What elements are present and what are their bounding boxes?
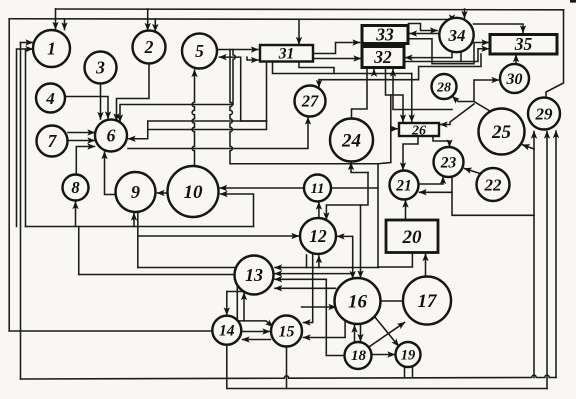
- wire block 10 into block 5 riser: [192, 70, 194, 166]
- wire horizontal bus y=226.5: [26, 226, 254, 228]
- wire block 22 into block 23 diagonal: [465, 169, 481, 174]
- block 6: [95, 120, 127, 152]
- wire block 2 bottom into block 6: [117, 64, 150, 121]
- wire long loop x=230 y=163.75: [230, 50, 378, 268]
- svg-text:25: 25: [491, 122, 512, 143]
- wire block 34 bottom to block 32 right upper: [406, 52, 453, 58]
- wire block 3 into block 6: [100, 84, 102, 120]
- svg-text:30: 30: [506, 71, 523, 88]
- wire block 7 into block 6 upper: [68, 132, 95, 134]
- block 10: [168, 166, 219, 217]
- wire L1 drop into block 1: [55, 9, 57, 29]
- svg-text:23: 23: [440, 154, 457, 171]
- wire bus arrow up into block 32 bottom: [373, 70, 375, 74]
- wire x=326 trunk to block 18 left: [326, 279, 346, 355]
- wire block 24 loop into block 12 top: [326, 173, 368, 220]
- svg-text:32: 32: [373, 47, 392, 67]
- svg-text:9: 9: [131, 182, 140, 202]
- wire block 11 right drop to riser: [331, 187, 378, 189]
- wire arrow up into block 8: [75, 202, 77, 227]
- wire arrow up into block 24 bottom: [351, 163, 368, 173]
- wire block 15 into block 16: [302, 306, 336, 308]
- wire B up into block 29: [546, 132, 548, 389]
- block 17: [403, 277, 451, 325]
- wire block 19 bottom drop to A right: [412, 367, 414, 378]
- wire feed into block 12 left: [138, 235, 299, 237]
- wire left border outer vertical x=9: [8, 19, 10, 331]
- wire block 18 into block 17 diagonal: [370, 323, 405, 347]
- wire block 8 into block 6: [76, 147, 94, 175]
- wire block 34 bottom to 35 left lower: [461, 49, 489, 62]
- wire block 15 bottom drop to B: [286, 347, 288, 389]
- wire block 12 right feed: [338, 235, 353, 237]
- wire bus H1 y=267.5 into block 13 right: [275, 267, 378, 269]
- block 1: [33, 30, 70, 67]
- wire bus y=267.5 into block 13 left: [138, 267, 235, 269]
- wire x=352.7 down into block 16 top: [352, 236, 354, 278]
- wire block 32 right lower line: [404, 61, 461, 63]
- wire L2 drop into block 1: [64, 19, 66, 30]
- svg-text:2: 2: [144, 37, 154, 57]
- wire block 15 into block 14: [243, 339, 271, 341]
- svg-text:14: 14: [219, 323, 235, 340]
- svg-text:29: 29: [535, 104, 554, 123]
- wire left vertical x=25.5: [25, 49, 27, 227]
- block 27: [295, 86, 326, 117]
- wire right vertical into block 29 from line A: [533, 132, 535, 378]
- wire bus H3 y=279.3 into block 13 right: [275, 278, 326, 280]
- wire bottom border line A: [21, 375, 557, 379]
- wire arrow into block 26 top right: [411, 74, 413, 122]
- svg-text:26: 26: [411, 123, 426, 138]
- svg-text:13: 13: [245, 265, 263, 285]
- svg-text:33: 33: [375, 25, 394, 45]
- wire block 18 into block 16: [354, 326, 356, 343]
- wire block 31 bottom connector to bus: [299, 62, 334, 74]
- wire L2 drop into block 31: [298, 19, 300, 44]
- wire L2 drop into block 2: [154, 19, 156, 31]
- block 24: [330, 119, 373, 162]
- svg-text:6: 6: [107, 126, 116, 146]
- block 26: [399, 123, 439, 136]
- svg-text:1: 1: [47, 39, 56, 59]
- wire block 5 into block 31: [217, 49, 258, 51]
- wire y=129.5 line: [148, 121, 267, 130]
- wire arrow up into block 12 bottom: [318, 256, 320, 268]
- wire block 4 into block 6: [65, 97, 108, 119]
- svg-text:34: 34: [448, 26, 466, 45]
- wire block 14 into block 15: [242, 331, 270, 333]
- wire drop to y=274.5 bus: [78, 227, 80, 275]
- svg-text:18: 18: [351, 348, 367, 364]
- wire L2 drop into block 34: [451, 20, 453, 22]
- block 3: [85, 52, 117, 84]
- wire left vertical x=16 into block 1: [17, 49, 33, 227]
- block 29: [528, 98, 560, 130]
- block 18: [345, 342, 372, 369]
- wire bottom line into block 14 left: [9, 330, 212, 332]
- svg-text:7: 7: [48, 131, 58, 151]
- wire block 33 right loop to block 35 left upper: [408, 39, 489, 64]
- wire 12 bottom drop to H1: [306, 255, 308, 268]
- svg-text:4: 4: [45, 89, 55, 108]
- wire block 12 drop into block 15 top right: [304, 255, 313, 323]
- wire block 16 into block 19 diagonal: [375, 317, 399, 347]
- svg-text:19: 19: [401, 348, 416, 364]
- block 16: [335, 278, 381, 324]
- block 9: [116, 172, 156, 212]
- wire 35 loop into block 27 top: [318, 80, 320, 87]
- wire block 9 into block 6 bottom: [105, 152, 117, 195]
- wire block 11 into block 10: [220, 187, 304, 189]
- wire branch down from 5-31 line into block 6 top right: [120, 50, 235, 122]
- wire block 33 into block 34: [409, 24, 438, 31]
- wire block 34 into block 35 top: [474, 24, 524, 33]
- wire into block 14 top: [226, 292, 228, 315]
- wire small arrow into block 31 left: [247, 57, 258, 60]
- wire block 7 into block 6 lower: [68, 140, 95, 142]
- svg-text:5: 5: [195, 41, 204, 61]
- block 12: [300, 218, 336, 254]
- wire riser into block 10 right: [221, 194, 254, 227]
- wire block 31 into block 32: [313, 58, 361, 60]
- wire block 35 bottom loop: [319, 54, 481, 80]
- wire block 12 into block 11: [318, 203, 320, 219]
- wire block 23 into block 21: [420, 177, 453, 193]
- wire left vertical x=20 bottom border: [20, 43, 22, 380]
- wire block 26 bottom to block 21 top: [403, 136, 418, 170]
- svg-text:21: 21: [395, 177, 412, 194]
- svg-text:17: 17: [418, 291, 439, 312]
- block 30: [500, 64, 529, 93]
- svg-text:3: 3: [95, 58, 105, 78]
- block 13: [235, 256, 274, 295]
- block 28: [432, 74, 457, 99]
- wire branch arrow into block 26 left: [391, 128, 398, 130]
- corner mark top-right: [570, 0, 576, 3]
- block 4: [36, 84, 65, 113]
- wire arrow up into block 13 bottom: [243, 293, 245, 321]
- block 5: [182, 34, 217, 69]
- wire block 31 bottom to y=73.5 bus: [273, 62, 412, 74]
- wire block 23 loop joining right riser: [452, 192, 534, 215]
- wire junction into block 28: [453, 97, 475, 102]
- block 23: [434, 147, 464, 177]
- wire block 20 top into block 21 bottom: [405, 201, 407, 221]
- block 35: [490, 35, 557, 55]
- wire bottom line B: [227, 345, 547, 389]
- svg-text:10: 10: [184, 182, 204, 203]
- svg-text:31: 31: [278, 46, 295, 63]
- block 8: [63, 175, 89, 201]
- wire block 26 bottom to block 23 top: [433, 136, 450, 147]
- wire block 31 into block 33: [313, 43, 360, 54]
- wire A right end up into block 29: [555, 131, 557, 378]
- block 25: [479, 109, 525, 155]
- block 7: [37, 126, 68, 157]
- svg-text:20: 20: [402, 227, 423, 248]
- wire branch diagonal into block 25: [523, 145, 535, 149]
- wire loop from block 31 bottom into block 5: [220, 57, 267, 121]
- block 21: [390, 171, 419, 200]
- svg-text:24: 24: [341, 131, 361, 152]
- wire block 16 into block 15: [304, 321, 346, 338]
- wire block 21 into block 23: [419, 177, 443, 184]
- wire arrow up into block 9: [133, 214, 135, 227]
- wire block 18 into block 19: [372, 354, 395, 356]
- wire junction into block 26 right: [441, 104, 475, 125]
- wire L1 top feedback line y=9: [56, 8, 564, 11]
- wire block 16 to block 17 link: [381, 300, 404, 302]
- block 19: [396, 342, 421, 367]
- svg-text:15: 15: [279, 324, 295, 341]
- wire J cluster riser into block 32 bottom: [393, 70, 452, 110]
- wire block 25 into block 30: [474, 80, 499, 111]
- svg-text:12: 12: [309, 226, 327, 246]
- wire L1 drop into block 2: [147, 9, 149, 30]
- wire loop from block 31 bottom into block 6 right: [129, 121, 267, 139]
- wire block 6 right to block 27 bottom: [128, 118, 308, 149]
- svg-text:28: 28: [436, 80, 451, 95]
- wire block 10 into block 9: [158, 192, 168, 194]
- wire block 13 drop to y=320.9: [236, 285, 238, 321]
- block 2: [133, 31, 166, 64]
- block 22: [477, 168, 510, 201]
- svg-text:8: 8: [71, 178, 79, 197]
- wire L1 right end down to block 29: [546, 10, 564, 98]
- wire block 16 into block 13 bus H4: [275, 287, 336, 289]
- wire block 30 into block 35: [515, 55, 517, 64]
- wire block 20 bottom drop to bus H1: [378, 252, 412, 267]
- block 32: [362, 47, 404, 68]
- wire block 32 bottom drop to block 26 top: [386, 68, 404, 122]
- wire block 17 into block 20: [425, 254, 427, 277]
- svg-text:27: 27: [301, 92, 319, 111]
- wire block 24 top to block 32 bottom: [352, 68, 368, 119]
- wire block 34 into block 33: [410, 33, 439, 35]
- block 11: [304, 175, 331, 202]
- block 33: [362, 26, 408, 44]
- wire block 16 into block 18: [360, 325, 362, 342]
- block 15: [271, 316, 302, 347]
- wire riser branch into block 16 top: [360, 205, 362, 278]
- wire bus y=274.5 into block 13 left: [79, 274, 235, 276]
- wire bus H2 into block 13 right: [275, 273, 353, 275]
- wire block 19 bottom drop to A left: [404, 367, 406, 378]
- block 20: [386, 220, 438, 253]
- svg-text:35: 35: [514, 34, 533, 54]
- wire arrow into block 1 left: [21, 42, 33, 44]
- wire block 13 into block 15 top left: [237, 321, 272, 327]
- block 31: [260, 45, 313, 62]
- block 34: [439, 18, 473, 52]
- block 14: [212, 316, 241, 345]
- wire link y=291.5: [227, 291, 244, 293]
- wire L1 drop into block 34: [464, 9, 466, 18]
- wire block 9 bottom drop: [137, 211, 139, 268]
- svg-text:11: 11: [311, 181, 325, 197]
- svg-text:16: 16: [348, 292, 368, 313]
- wire L2 second top line y=19: [9, 18, 452, 21]
- wire riser x=390.8 from y=163 bus up to 32 drop: [378, 95, 391, 164]
- svg-text:22: 22: [484, 175, 503, 194]
